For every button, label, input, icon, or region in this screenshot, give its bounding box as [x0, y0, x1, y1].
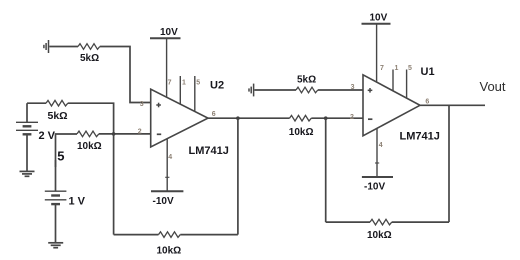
svg-text:LM741J: LM741J — [400, 131, 440, 143]
svg-text:7: 7 — [380, 65, 384, 72]
resistor R2 5k (2V source arm) — [46, 100, 68, 106]
op-amp U2 plus sign — [156, 103, 161, 108]
op-amp U1 minus sign — [368, 118, 372, 120]
battery V1 1V — [45, 160, 67, 242]
wire U2 pin1 stub — [179, 76, 181, 105]
wire U1 pin5 stub — [406, 70, 408, 99]
wire node A (B1 top to R2) — [27, 102, 46, 104]
resistor R5 5k (U1 + input) — [296, 87, 318, 93]
resistor R6 10k (U2 feedback) — [159, 232, 181, 238]
op-amp U1 plus sign — [368, 88, 373, 93]
wire U1 pin7 — [376, 24, 378, 82]
op-amp U2 triangle — [151, 89, 208, 147]
svg-text:1: 1 — [395, 65, 399, 72]
svg-text:6: 6 — [212, 111, 216, 118]
svg-text:4: 4 — [379, 142, 383, 149]
svg-text:Vout: Vout — [480, 79, 506, 94]
svg-text:2: 2 — [350, 114, 354, 121]
svg-text:5: 5 — [408, 65, 412, 72]
wire U2 feedback bottom left segment — [114, 234, 159, 236]
ground GND1 (left of R1, rotated earth) — [44, 40, 49, 53]
node B junction dot — [112, 132, 116, 136]
svg-text:LM741J: LM741J — [189, 145, 229, 157]
battery B1 2V — [16, 103, 38, 171]
wire R1 to U2 pin3 corner — [100, 47, 151, 103]
svg-text:2 V: 2 V — [39, 130, 56, 142]
wire R7 to right vertical — [392, 221, 449, 223]
svg-text:5: 5 — [57, 149, 64, 164]
supply VEE U2 -10V bar — [151, 190, 183, 192]
resistor R1 5k (to U2 + input) — [78, 44, 100, 50]
svg-text:3: 3 — [140, 101, 144, 108]
svg-text:4: 4 — [168, 154, 172, 161]
supply VCC U2 10V bar — [150, 37, 181, 39]
wire GND1 to R1 — [49, 46, 78, 48]
resistor R3 10k (1V source arm) — [77, 131, 99, 137]
wire U1 pin4 — [376, 128, 378, 177]
svg-text:5kΩ: 5kΩ — [80, 53, 99, 64]
wire U1 feedback left vertical — [325, 118, 327, 222]
wire U2 pin4 — [166, 139, 168, 192]
wire U2 output to U1 pin2 — [208, 117, 290, 119]
resistor R4 10k (interstage) — [290, 115, 312, 121]
svg-text:-10V: -10V — [364, 182, 385, 193]
svg-text:10V: 10V — [160, 27, 178, 38]
svg-text:U2: U2 — [210, 79, 224, 91]
wire node B vertical to feedback — [113, 134, 115, 235]
svg-text:U1: U1 — [421, 66, 435, 78]
wire U2 pin7 — [166, 38, 168, 97]
wire U2 feedback vertical — [237, 118, 239, 234]
svg-text:10kΩ: 10kΩ — [77, 141, 102, 152]
wire R2 to node B — [68, 103, 114, 134]
wire U1 feedback right vertical — [448, 105, 450, 222]
svg-text:5: 5 — [196, 79, 200, 86]
junction dot U1 inverting node — [324, 116, 328, 120]
wire U1 pin1 stub — [392, 70, 394, 92]
junction dot U2 output feedback tap — [236, 116, 240, 120]
svg-text:10kΩ: 10kΩ — [157, 245, 182, 256]
wire R5 to U1 pin3 — [318, 89, 363, 91]
tick U1 pin4 end — [375, 162, 379, 164]
op-amp U1 triangle — [363, 75, 420, 136]
wire U1 feedback bottom left segment — [326, 221, 370, 223]
wire R3 to U2 pin2 — [99, 133, 151, 135]
op-amp U2 minus sign — [157, 133, 161, 135]
ground GND3 (left of R5, rotated earth) — [249, 84, 254, 97]
svg-text:6: 6 — [425, 98, 429, 105]
svg-text:5kΩ: 5kΩ — [297, 75, 316, 86]
wire U1 output to Vout — [420, 104, 485, 106]
svg-text:2: 2 — [138, 129, 142, 136]
svg-text:-10V: -10V — [153, 196, 174, 207]
svg-text:1: 1 — [182, 79, 186, 86]
tick U2 pin4 end — [165, 176, 169, 178]
ground GND4 (below V1) — [48, 243, 63, 248]
supply VCC U1 10V bar — [362, 23, 391, 25]
svg-text:10kΩ: 10kΩ — [289, 127, 314, 138]
wire corner to 1V branch — [56, 134, 78, 167]
svg-text:5kΩ: 5kΩ — [48, 110, 68, 122]
wire U2 pin5 stub — [194, 76, 196, 112]
wire R4 to U1 pin2 — [311, 117, 363, 119]
svg-text:7: 7 — [168, 79, 172, 86]
svg-text:10kΩ: 10kΩ — [367, 230, 392, 241]
wire GND3 to R5 — [254, 89, 296, 91]
supply VEE U1 -10V bar — [362, 176, 393, 178]
ground GND2 (below B1) — [20, 171, 35, 176]
svg-text:3: 3 — [351, 84, 355, 91]
resistor R7 10k (U1 feedback) — [370, 219, 392, 225]
svg-text:1 V: 1 V — [69, 195, 86, 207]
wire R6 to right vertical — [180, 234, 238, 236]
svg-text:10V: 10V — [370, 13, 388, 24]
